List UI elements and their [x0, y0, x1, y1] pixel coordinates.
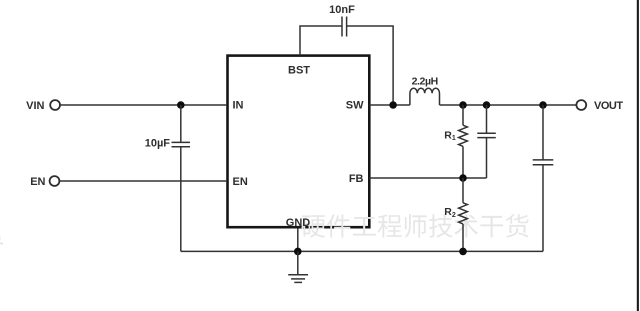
- watermark fragment left edge: [0, 221, 4, 245]
- node SW junction dot: [389, 101, 397, 109]
- terminal VIN: [50, 100, 60, 110]
- svg-text:FB: FB: [349, 173, 364, 185]
- svg-text:VOUT: VOUT: [594, 100, 623, 112]
- resistor R1: [459, 105, 468, 178]
- node Cff top junction dot: [483, 101, 491, 109]
- svg-text:10nF: 10nF: [329, 4, 355, 16]
- svg-text:VIN: VIN: [26, 100, 44, 112]
- svg-text:GND: GND: [286, 217, 311, 229]
- node VIN junction dot: [177, 101, 185, 109]
- wire VIN to IN: [60, 104, 227, 106]
- wire input cap upper lead: [180, 105, 182, 142]
- svg-text:BST: BST: [288, 65, 310, 77]
- watermark text: [301, 214, 528, 238]
- capacitor COUT: [533, 105, 554, 251]
- svg-text:SW: SW: [346, 100, 364, 112]
- wire ground stub: [297, 251, 299, 274]
- capacitor CIN 10uF: [172, 142, 191, 146]
- inductor L1 2.2uH: [410, 88, 440, 105]
- terminal EN: [50, 176, 60, 186]
- terminal VOUT: [576, 100, 586, 110]
- wire GND pin stub: [297, 228, 299, 251]
- node R1 top junction dot: [459, 101, 467, 109]
- ground: [288, 275, 308, 283]
- node COUT top junction dot: [539, 101, 547, 109]
- svg-text:EN: EN: [233, 176, 248, 188]
- svg-text:2.2µH: 2.2µH: [412, 76, 438, 88]
- wire bottom ground rail: [181, 250, 543, 252]
- wire BST riser left: [300, 26, 342, 56]
- page border right: [637, 0, 639, 311]
- resistor R2: [459, 178, 468, 251]
- wire SW to inductor: [370, 104, 410, 106]
- wire inductor to VOUT: [440, 104, 577, 106]
- node R2 bottom junction dot: [459, 248, 467, 256]
- node FB junction dot: [459, 174, 467, 182]
- svg-text:IN: IN: [233, 100, 244, 112]
- capacitor CBST 10nF: [342, 17, 347, 37]
- wire input cap lower lead: [180, 147, 182, 252]
- wire BST riser right: [347, 26, 393, 105]
- svg-text:EN: EN: [30, 176, 45, 188]
- node GND junction dot: [294, 248, 302, 256]
- wire EN to pin EN: [60, 180, 227, 182]
- wire FB to divider: [370, 177, 487, 179]
- svg-text:10µF: 10µF: [145, 137, 171, 149]
- IC U1 body: [228, 56, 370, 228]
- capacitor Cff feedforward: [477, 105, 496, 178]
